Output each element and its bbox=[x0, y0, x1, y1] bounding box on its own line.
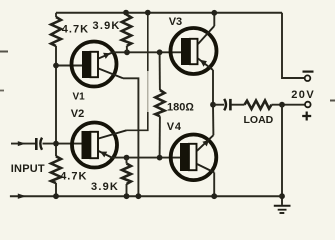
junction dot load/ground branch bbox=[279, 102, 285, 108]
resistor 3.9K upper lead to emitter wire bbox=[126, 46, 128, 53]
svg-text:V4: V4 bbox=[167, 121, 182, 133]
junction dot x=147.8 at top rail bbox=[145, 10, 151, 16]
resistor 180 ohm lead to V2 emitter wire bbox=[159, 116, 161, 157]
wire V3 emitter down to output node bbox=[212, 70, 214, 105]
resistor LOAD bbox=[245, 101, 272, 110]
wire V4 emitter up to output node bbox=[212, 105, 214, 136]
svg-text:INPUT: INPUT bbox=[11, 163, 45, 175]
svg-text:3.9K: 3.9K bbox=[93, 20, 121, 32]
wire V4 collector to bottom rail bbox=[213, 172, 215, 196]
wire output node to capacitor bbox=[213, 104, 224, 106]
transistor V2 bbox=[72, 123, 127, 168]
wire V2 emitter to V4 base bbox=[112, 157, 181, 159]
wire top rail (-20V bus) bbox=[56, 12, 282, 14]
junction dot bottom rail x=126.5 bbox=[124, 193, 130, 199]
svg-text:3.9K: 3.9K bbox=[91, 181, 119, 193]
resistor 3.9K upper bbox=[122, 15, 132, 46]
transistor V3 bbox=[171, 26, 217, 74]
junction dot bottom rail x=56 bbox=[53, 193, 59, 199]
svg-text:V3: V3 bbox=[169, 16, 182, 28]
wire top rail to V2 collector (x=147.8, faded in middle) bbox=[147, 13, 149, 71]
capacitor input coupling: straight plate bbox=[35, 138, 38, 150]
wire load to plus terminal bbox=[272, 104, 306, 106]
ground symbol bbox=[274, 206, 291, 213]
svg-text:V1: V1 bbox=[73, 91, 86, 102]
wire ground branch down bbox=[281, 105, 283, 205]
junction dot bottom rail x=138.4 bbox=[136, 193, 142, 199]
svg-text:LOAD: LOAD bbox=[244, 114, 274, 126]
arrowhead on bottom rail left end bbox=[18, 194, 26, 199]
scan artifact right edge bbox=[330, 100, 335, 102]
junction dot 180ohm bottom end bbox=[157, 155, 163, 161]
capacitor output coupling: straight plate bbox=[229, 99, 232, 111]
wire capacitor to V2 base bbox=[43, 143, 83, 145]
wire left column x=56 mid segment bbox=[55, 46, 57, 156]
capacitor input coupling: curved plate bbox=[40, 138, 42, 150]
resistor 3.9K lower bbox=[122, 164, 131, 185]
junction dot 180ohm top end bbox=[157, 49, 163, 55]
svg-text:4.7K: 4.7K bbox=[60, 171, 87, 183]
wire left column x=56 bottom segment bbox=[55, 183, 57, 196]
transistor V4 bbox=[171, 135, 217, 181]
junction dot input node at x=56 bbox=[53, 141, 59, 147]
resistor 3.9K upper lead from rail bbox=[126, 13, 128, 15]
junction dot output node bbox=[210, 102, 216, 108]
wire V1 emitter to V3 base bbox=[113, 51, 182, 53]
terminal plus (open circle) bbox=[305, 102, 311, 108]
plus sign bbox=[302, 112, 311, 121]
wire right drop from top rail to minus terminal bbox=[282, 13, 305, 78]
svg-text:4.7K: 4.7K bbox=[62, 24, 89, 36]
junction dot 3.9K upper bottom end bbox=[124, 49, 130, 55]
transistor V1 bbox=[72, 42, 124, 87]
junction dot 3.9K lower top end bbox=[124, 155, 130, 161]
svg-text:20V: 20V bbox=[291, 89, 315, 101]
wire left column x=56 upper segment bbox=[55, 13, 57, 17]
wire capacitor to load bbox=[232, 104, 245, 106]
wire V3 collector to top rail bbox=[213, 13, 215, 26]
resistor 4.7K lower bbox=[51, 156, 61, 183]
capacitor output coupling: curved plate bbox=[224, 99, 226, 111]
junction dot V3 collector at top rail bbox=[211, 10, 217, 16]
resistor 3.9K lower lead to bottom rail bbox=[126, 184, 128, 196]
minus sign bbox=[303, 70, 314, 72]
scan artifact left edge upper bbox=[0, 51, 8, 53]
wire bottom rail (+20V / ground bus) bbox=[10, 195, 282, 197]
resistor 180 ohm bbox=[155, 90, 164, 116]
svg-text:180Ω: 180Ω bbox=[167, 101, 194, 113]
junction dot bottom rail x=214.2 bbox=[211, 193, 217, 199]
arrowhead on input lead bbox=[18, 141, 26, 146]
resistor 3.9K lower lead bbox=[126, 158, 128, 164]
svg-text:V2: V2 bbox=[71, 108, 84, 120]
scan artifact left edge mid bbox=[0, 90, 4, 92]
wire V1 collector down to bottom rail bbox=[123, 78, 138, 196]
wire V1 base lead bbox=[56, 65, 83, 67]
resistor 4.7K upper bbox=[51, 17, 61, 46]
terminal minus (open circle) bbox=[305, 75, 311, 81]
junction dot ground at bottom rail bbox=[279, 193, 285, 199]
resistor 180 ohm lead from emitter wire bbox=[159, 52, 161, 90]
junction dot V1 base at x=56 bbox=[53, 63, 59, 69]
junction dot 3.9K upper at top rail bbox=[123, 10, 129, 16]
wire input lead bbox=[11, 143, 35, 145]
